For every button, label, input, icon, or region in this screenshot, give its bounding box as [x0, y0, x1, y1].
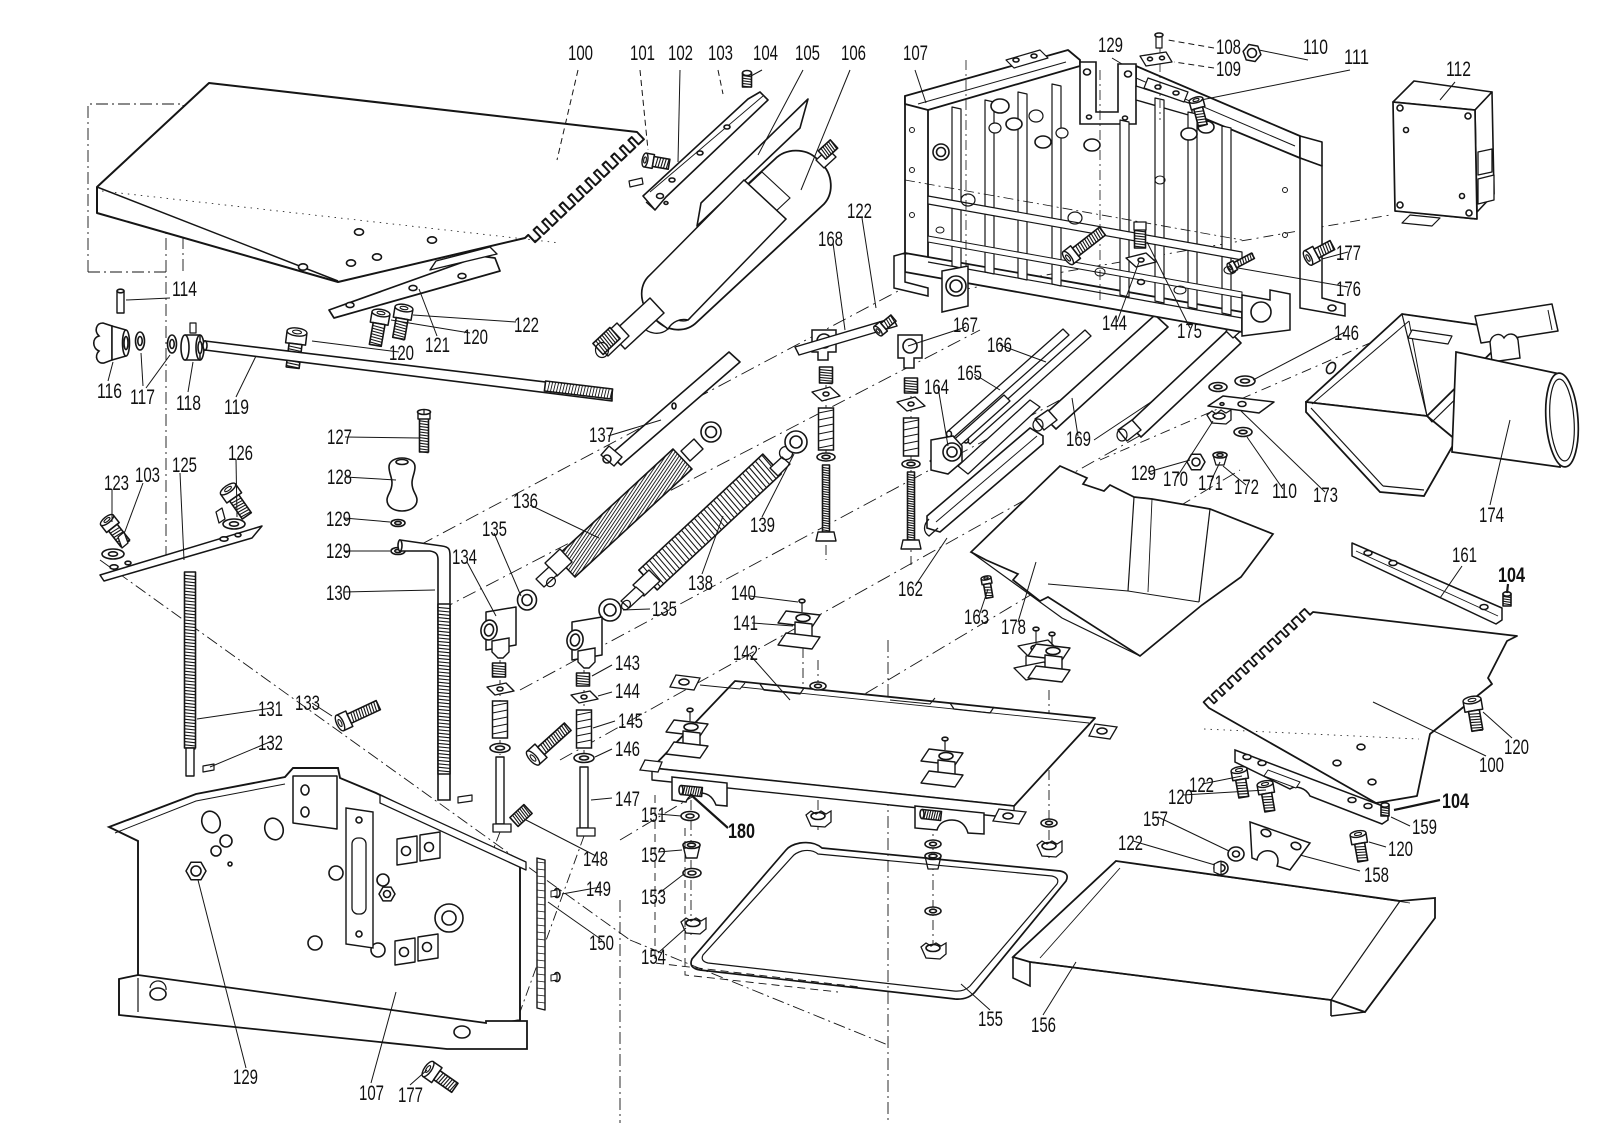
svg-text:111: 111: [1344, 46, 1369, 69]
below-plate castle A: [806, 811, 831, 827]
screw 122c: [1231, 769, 1248, 781]
svg-text:170: 170: [1163, 468, 1188, 491]
rubber mount B: [1028, 644, 1070, 660]
svg-text:122: 122: [514, 314, 539, 337]
label 172: [1223, 466, 1246, 485]
frame 107 body: [905, 96, 928, 262]
sheet above 162: [958, 400, 1040, 474]
svg-text:162: 162: [898, 578, 923, 601]
bracket 129 U-shape: [1080, 62, 1136, 124]
svg-text:110: 110: [1272, 480, 1297, 503]
label 156: [1043, 962, 1076, 1015]
label 120: [312, 341, 399, 352]
spring 145b: [577, 710, 592, 748]
label 154: [658, 928, 686, 953]
label 144#c: [1117, 262, 1139, 322]
stack B washer 144: [897, 397, 925, 411]
svg-text:148: 148: [583, 848, 608, 871]
collar 118: [185, 335, 200, 360]
panel base: [119, 975, 527, 1049]
label 116: [108, 362, 113, 381]
rod 119: [205, 341, 612, 401]
svg-text:120: 120: [463, 326, 488, 349]
label 125: [180, 473, 184, 560]
roller rod 169a: [1043, 315, 1168, 429]
cover foldline: [1135, 864, 1410, 903]
base holes: [150, 988, 166, 1000]
rod 165: [930, 395, 1010, 467]
svg-text:129: 129: [326, 540, 351, 563]
label 129#d: [1148, 460, 1190, 472]
right end block: [1300, 136, 1322, 166]
svg-text:150: 150: [589, 932, 614, 955]
label 137: [608, 420, 661, 436]
panel nut 129c: [186, 862, 206, 879]
svg-text:109: 109: [1216, 58, 1241, 81]
label 171: [1211, 462, 1220, 481]
bolt 122b: [874, 322, 887, 336]
pin 132: [203, 764, 214, 772]
svg-text:104: 104: [1498, 564, 1525, 587]
svg-text:114: 114: [172, 278, 197, 301]
rubber mount A: [778, 611, 820, 627]
label 120#e: [1369, 842, 1386, 847]
label 112: [1440, 82, 1455, 100]
svg-text:164: 164: [924, 376, 949, 399]
washer 146b: [1235, 376, 1255, 386]
label 119: [236, 356, 256, 397]
washer 117: [136, 332, 145, 350]
svg-text:117: 117: [130, 386, 155, 409]
knob 128: [387, 458, 417, 511]
svg-text:129: 129: [326, 508, 351, 531]
label 143: [592, 665, 612, 676]
label 134: [467, 562, 496, 616]
label 121: [419, 289, 437, 336]
label 122#b: [862, 218, 876, 308]
label 176: [1238, 268, 1348, 287]
svg-text:163: 163: [964, 606, 989, 629]
plug 104b: [1381, 805, 1389, 816]
washer 1049: [1041, 819, 1057, 827]
svg-text:105: 105: [795, 42, 820, 65]
knob 116: [94, 323, 112, 363]
bolt 120 left: [286, 331, 307, 345]
plate ears: [670, 675, 700, 690]
svg-text:133: 133: [295, 692, 320, 715]
label 133: [312, 703, 332, 716]
screw 108: [1156, 36, 1162, 48]
channel bar 162: [927, 428, 1043, 532]
svg-text:135: 135: [652, 598, 677, 621]
ring 135b: [599, 599, 621, 621]
washer 146b2: [574, 754, 594, 763]
label 105: [758, 70, 803, 155]
frame lower rail: [928, 236, 1242, 298]
box screws: [1397, 105, 1403, 111]
knurl roller 148: [510, 805, 532, 827]
threaded rod 131: [185, 572, 196, 748]
label 151: [658, 814, 681, 816]
svg-text:144: 144: [1102, 312, 1127, 335]
washer 144b: [1126, 253, 1156, 267]
chute 174: [1306, 314, 1514, 416]
frame dashdot axes: [905, 180, 1242, 240]
chute slot: [1408, 330, 1452, 344]
label 100#c: [1373, 702, 1486, 756]
hex nut 129d: [1187, 454, 1205, 470]
svg-text:118: 118: [176, 392, 201, 415]
gasket 155: [691, 843, 1067, 1000]
bolt 177b: [423, 1062, 442, 1083]
screw 176: [1228, 261, 1238, 273]
svg-text:168: 168: [818, 228, 843, 251]
label 146: [595, 749, 612, 757]
frame mid rail: [928, 196, 1242, 260]
svg-text:123: 123: [104, 472, 129, 495]
svg-text:153: 153: [641, 886, 666, 909]
svg-text:178: 178: [1001, 616, 1026, 639]
svg-text:131: 131: [258, 698, 283, 721]
stack B bush 143: [905, 378, 918, 393]
knife blade 105: [697, 99, 808, 226]
frame right foot: [1242, 290, 1290, 336]
label 146#c: [1253, 332, 1345, 380]
front bracket right: [915, 806, 984, 834]
rod 130 bent: [400, 540, 450, 800]
bolt 133: [336, 711, 352, 731]
pin 147a: [496, 757, 504, 824]
label 174: [1490, 420, 1510, 505]
rod 137: [610, 352, 740, 465]
ring 139: [785, 431, 807, 453]
washer 110c: [1234, 428, 1252, 437]
svg-text:107: 107: [359, 1082, 384, 1105]
label 129#b: [344, 550, 390, 552]
label 135#b: [623, 609, 650, 610]
svg-text:101: 101: [630, 42, 655, 65]
label 167: [908, 327, 966, 346]
svg-text:166: 166: [987, 334, 1012, 357]
bush 143a: [493, 663, 506, 677]
label 180: [690, 794, 728, 828]
strip 168: [795, 318, 897, 355]
label 142: [750, 655, 790, 700]
svg-text:130: 130: [326, 582, 351, 605]
clamp block pair lower: [395, 938, 415, 965]
ring 135c: [518, 590, 537, 610]
pin 114: [117, 291, 124, 313]
label 149: [562, 887, 601, 894]
bar 102 knife holder: [643, 92, 768, 210]
svg-text:134: 134: [452, 546, 477, 569]
bush right stack: [925, 856, 941, 869]
bracket 164: [931, 436, 962, 474]
label 120#d: [1183, 790, 1266, 795]
clamp block pair upper: [397, 836, 417, 865]
svg-text:152: 152: [641, 844, 666, 867]
label 152: [658, 850, 682, 852]
frame center foot: [942, 266, 968, 312]
drum front sheet 105b: [642, 180, 786, 329]
svg-text:135: 135: [482, 518, 507, 541]
svg-text:169: 169: [1066, 428, 1091, 451]
pin 147b: [580, 767, 588, 828]
label 120#c: [1483, 712, 1512, 738]
svg-text:108: 108: [1216, 36, 1241, 59]
plate 173: [1208, 396, 1274, 413]
svg-text:172: 172: [1234, 476, 1259, 499]
svg-text:144: 144: [615, 680, 640, 703]
screw 122d: [1214, 862, 1228, 875]
washer below castle A: [810, 682, 826, 690]
svg-text:177: 177: [398, 1084, 423, 1107]
svg-text:127: 127: [327, 426, 352, 449]
front bracket left w/stub 180: [672, 777, 727, 806]
strip 150: [537, 858, 545, 1010]
washer 157: [1228, 847, 1244, 861]
pin 103b: [216, 508, 225, 523]
chute tube: [1452, 352, 1560, 467]
panel slope ledge: [380, 795, 526, 870]
label 127: [345, 437, 419, 438]
label 129: [1112, 58, 1122, 64]
screw 120e: [1350, 833, 1367, 845]
label 136: [530, 505, 599, 538]
label 145: [593, 721, 615, 728]
arm right of 129: [1136, 86, 1192, 116]
label 120#b: [391, 320, 470, 333]
label 159: [1391, 817, 1410, 826]
svg-text:116: 116: [97, 380, 122, 403]
plate 142: [652, 681, 1095, 806]
washer 151: [681, 812, 699, 821]
label 163: [979, 589, 988, 616]
plate 100c bottom right: [1204, 609, 1517, 803]
label 139: [762, 454, 794, 517]
screw 123: [101, 515, 120, 532]
roller 138 outfeed (ribbed): [639, 454, 781, 590]
washer 129a: [391, 520, 405, 527]
strip 125: [100, 526, 262, 581]
dashed inner rect: [655, 795, 860, 987]
screw 120d: [1257, 783, 1274, 795]
svg-text:138: 138: [688, 572, 713, 595]
washer 110b: [1209, 383, 1227, 392]
screw 149b: [554, 973, 560, 982]
svg-text:176: 176: [1336, 278, 1361, 301]
svg-text:136: 136: [513, 490, 538, 513]
machine panel 107b: [109, 768, 520, 1026]
nut 110a: [1243, 45, 1261, 62]
bracket 158: [1250, 822, 1310, 870]
spring 145a: [493, 701, 508, 738]
rod 166 pair: [947, 329, 1069, 438]
stack A bush 143: [820, 367, 833, 383]
bolt inside frame: [1063, 246, 1080, 264]
pad below 178: [1018, 640, 1060, 658]
svg-text:120: 120: [1168, 786, 1193, 809]
svg-text:159: 159: [1412, 816, 1437, 839]
label 169: [1072, 398, 1078, 436]
svg-text:141: 141: [733, 612, 758, 635]
svg-text:158: 158: [1364, 864, 1389, 887]
screw 175: [1135, 228, 1146, 248]
label 107#b: [371, 992, 396, 1083]
label 153: [658, 874, 684, 894]
label 166: [1000, 345, 1046, 362]
stack A washer 146: [817, 453, 835, 461]
label 109: [1174, 62, 1214, 68]
svg-text:122: 122: [1118, 832, 1143, 855]
label 164: [938, 387, 948, 446]
svg-text:106: 106: [841, 42, 866, 65]
bush 143b: [577, 673, 590, 686]
svg-text:156: 156: [1031, 1014, 1056, 1037]
label 107: [915, 70, 926, 103]
label 177#b: [410, 1070, 427, 1085]
cutterhead drum 106: [642, 151, 831, 330]
bolt 101: [644, 153, 655, 168]
svg-text:146: 146: [1334, 322, 1359, 345]
svg-text:175: 175: [1177, 320, 1202, 343]
screw 120c right: [1463, 698, 1483, 712]
svg-text:155: 155: [978, 1008, 1003, 1031]
svg-text:102: 102: [668, 42, 693, 65]
svg-text:120: 120: [1504, 736, 1529, 759]
stub bolt right: [922, 810, 942, 821]
bracket plate 167b: [898, 335, 922, 368]
clamp bar 121: [329, 256, 500, 318]
label 111: [1201, 70, 1350, 100]
stack A washer 144: [812, 387, 840, 401]
label 106: [801, 70, 850, 190]
label 110: [1259, 50, 1308, 60]
label 100: [557, 70, 578, 160]
svg-text:147: 147: [615, 788, 640, 811]
label 162: [915, 538, 947, 586]
strip 159: [1235, 750, 1388, 824]
castle 154: [681, 918, 706, 934]
panel slot plate: [346, 808, 373, 948]
svg-text:110: 110: [1303, 36, 1328, 59]
label 144: [598, 692, 612, 696]
svg-text:174: 174: [1479, 504, 1504, 527]
label 147: [591, 798, 612, 800]
box tabs: [1478, 149, 1492, 175]
rubber mount D: [921, 749, 963, 765]
svg-text:140: 140: [731, 582, 756, 605]
label 177#a: [1322, 252, 1348, 259]
label 102: [678, 70, 680, 162]
screw 140c: [689, 710, 691, 721]
washer 146a: [490, 744, 510, 753]
stack B washer 146: [902, 460, 920, 468]
label 129#a: [344, 518, 390, 522]
svg-text:151: 151: [641, 804, 666, 827]
label 178: [1018, 562, 1036, 622]
screw plug 104: [743, 73, 752, 87]
cover 156: [1013, 861, 1435, 1012]
svg-text:100: 100: [568, 42, 593, 65]
label 150: [548, 902, 602, 940]
label 173: [1241, 411, 1325, 492]
svg-text:137: 137: [589, 424, 614, 447]
svg-text:120: 120: [389, 342, 414, 365]
svg-text:177: 177: [1336, 242, 1361, 265]
svg-text:121: 121: [425, 334, 450, 357]
svg-text:129: 129: [233, 1066, 258, 1089]
label 122: [413, 315, 516, 322]
svg-text:173: 173: [1313, 484, 1338, 507]
svg-text:171: 171: [1198, 472, 1223, 495]
label 122#d: [1133, 841, 1215, 865]
panel top inner line: [115, 784, 285, 833]
svg-text:120: 120: [1388, 838, 1413, 861]
bolt 177a: [1304, 246, 1320, 265]
bolt 111: [1189, 98, 1205, 110]
chute arm: [1475, 304, 1558, 343]
svg-text:129: 129: [1131, 462, 1156, 485]
stack A spring 145: [819, 408, 834, 450]
pin 103c: [629, 178, 643, 187]
svg-text:107: 107: [903, 42, 928, 65]
svg-text:100: 100: [1479, 754, 1504, 777]
castle 1051: [1037, 841, 1062, 857]
pin 132b: [458, 795, 472, 803]
svg-text:180: 180: [728, 820, 755, 843]
label 158: [1300, 855, 1360, 871]
svg-text:103: 103: [135, 464, 160, 487]
label 103: [718, 70, 723, 94]
screw 149a: [554, 889, 560, 898]
svg-text:145: 145: [618, 710, 643, 733]
roller rod 169b: [1128, 330, 1241, 437]
label 170: [1177, 421, 1213, 477]
svg-text:165: 165: [957, 362, 982, 385]
svg-text:146: 146: [615, 738, 640, 761]
label 104#b: [1394, 800, 1440, 810]
frame ribs: [952, 107, 961, 268]
bracket plate 167a: [812, 330, 836, 360]
svg-text:112: 112: [1446, 58, 1471, 81]
label 128: [345, 477, 396, 480]
label 104: [751, 70, 762, 76]
frame small brackets top: [1006, 50, 1048, 68]
construction dash-dot lines: [165, 150, 167, 560]
screw 140d: [944, 739, 946, 750]
label 168: [833, 243, 845, 330]
label 129#c: [198, 880, 246, 1068]
washer right stack2: [925, 907, 941, 915]
plate 109: [1140, 52, 1172, 66]
label 118: [188, 362, 193, 392]
pin 103 left: [118, 532, 128, 548]
label 122#c: [1202, 776, 1242, 784]
screw 163: [981, 577, 992, 585]
bolt 122: [393, 306, 413, 320]
stub bolt 180: [681, 786, 703, 797]
electric box 112: [1393, 81, 1492, 110]
svg-text:119: 119: [224, 396, 249, 419]
frame left foot: [894, 253, 928, 296]
svg-text:142: 142: [733, 642, 758, 665]
nut 152: [683, 845, 700, 858]
rubber mount C: [666, 720, 708, 736]
strip 161: [1352, 543, 1502, 624]
label 132: [210, 741, 272, 767]
washer 144a: [487, 683, 514, 695]
